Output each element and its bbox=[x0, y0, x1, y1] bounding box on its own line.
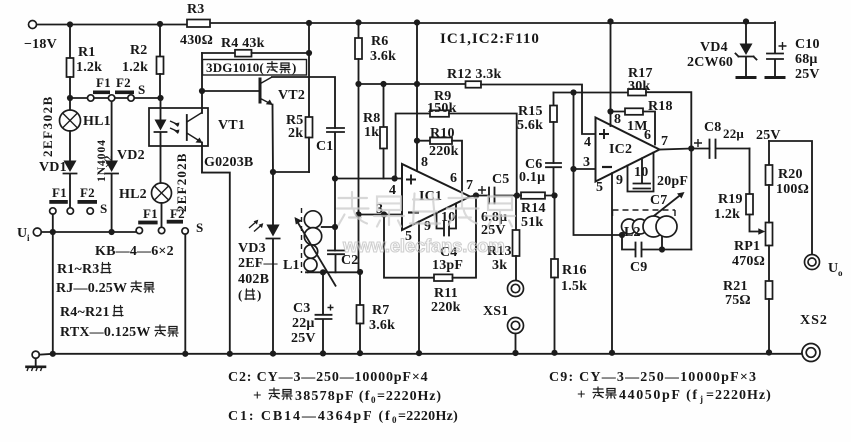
svg-text:6: 6 bbox=[644, 128, 651, 143]
potentiometer RP1 bbox=[766, 223, 773, 246]
resistor R9 feedback bbox=[396, 114, 430, 179]
wire IC2 inverting node line B bbox=[554, 92, 629, 94]
resistor R4 bbox=[202, 52, 235, 54]
svg-text:R4~R21: R4~R21 bbox=[60, 305, 110, 320]
resistor R13 bbox=[515, 196, 517, 231]
svg-text:3.6k: 3.6k bbox=[369, 318, 395, 333]
optocoupler VT1 box bbox=[149, 108, 208, 146]
svg-text:VD4: VD4 bbox=[700, 40, 728, 55]
svg-text:R3: R3 bbox=[187, 2, 205, 17]
wire IC2 output bbox=[660, 149, 710, 150]
svg-text:3.6k: 3.6k bbox=[370, 49, 396, 64]
resistor R21 bbox=[768, 246, 770, 282]
svg-text:F1: F1 bbox=[96, 75, 111, 90]
resistor R8 bbox=[380, 81, 386, 87]
svg-text:+: + bbox=[253, 388, 262, 404]
resistor R7 bbox=[359, 272, 361, 305]
svg-text:RJ—0.25W: RJ—0.25W bbox=[56, 281, 127, 296]
svg-text:U: U bbox=[17, 226, 27, 241]
svg-text:IC2: IC2 bbox=[609, 142, 632, 157]
svg-text:2k: 2k bbox=[288, 126, 303, 141]
wire IC1 pin8 supply column bbox=[416, 23, 418, 172]
svg-text:20pF: 20pF bbox=[657, 174, 688, 189]
svg-text:25V: 25V bbox=[291, 331, 316, 346]
lamp HL2 bbox=[152, 183, 172, 203]
svg-text:KB—4—6×2: KB—4—6×2 bbox=[95, 244, 174, 259]
svg-text:470Ω: 470Ω bbox=[732, 254, 765, 269]
switch contacts F1 F2 S (row3) bbox=[161, 203, 163, 227]
svg-text:1.2k: 1.2k bbox=[122, 60, 148, 75]
wire IC1 pin4 input line bbox=[335, 178, 402, 180]
svg-text:1k: 1k bbox=[364, 125, 379, 140]
svg-text:R7: R7 bbox=[372, 303, 390, 318]
svg-text:220k: 220k bbox=[429, 144, 459, 159]
wire to Uo terminal bbox=[769, 141, 812, 255]
resistor R2 bbox=[159, 24, 161, 57]
svg-text:C8: C8 bbox=[704, 120, 722, 135]
svg-text:22μ: 22μ bbox=[292, 316, 315, 331]
svg-text:IC1: IC1 bbox=[419, 189, 442, 204]
svg-text:R15: R15 bbox=[518, 104, 543, 119]
resistor R17 bbox=[628, 89, 646, 96]
opto LED bbox=[160, 98, 162, 119]
wire row2 left contact to Ui line bbox=[52, 214, 54, 232]
svg-text:G0203B: G0203B bbox=[204, 155, 253, 170]
switch contacts F1 F2 S (row1) bbox=[88, 95, 94, 101]
svg-text:30k: 30k bbox=[628, 79, 650, 94]
capacitor C8 bbox=[694, 139, 702, 147]
svg-text:C2: CY—3—250—10000pF×4: C2: CY—3—250—10000pF×4 bbox=[228, 370, 429, 385]
resistor R10 bbox=[417, 140, 430, 142]
capacitor C3 electrolytic bbox=[316, 272, 332, 353]
wire bias line A bbox=[359, 83, 466, 85]
svg-text:2CW60: 2CW60 bbox=[687, 55, 733, 70]
resistor R16 bbox=[551, 192, 557, 198]
svg-text:3k: 3k bbox=[492, 258, 507, 273]
svg-text:S: S bbox=[138, 82, 145, 97]
jack XS1 bbox=[508, 281, 524, 297]
jack XS2 bbox=[802, 344, 820, 362]
resistor R3 bbox=[187, 20, 210, 28]
svg-text:R14: R14 bbox=[521, 201, 546, 216]
svg-text:C10: C10 bbox=[795, 37, 820, 52]
svg-text:C1: CB14—4364pF (f: C1: CB14—4364pF (f bbox=[228, 409, 392, 424]
node dots on rail bbox=[67, 21, 73, 27]
svg-text:R18: R18 bbox=[648, 99, 673, 114]
wire S row3 down to ground rail bbox=[184, 234, 186, 353]
ground symbol bbox=[32, 351, 39, 358]
svg-text:0: 0 bbox=[392, 415, 397, 425]
svg-text:R2: R2 bbox=[130, 43, 148, 58]
svg-text:2EF202B: 2EF202B bbox=[174, 152, 189, 212]
resistor R6 bbox=[358, 23, 360, 39]
svg-text:3DG1010(: 3DG1010( bbox=[206, 60, 264, 75]
svg-text:8: 8 bbox=[421, 155, 428, 170]
svg-text:44050pF (f: 44050pF (f bbox=[619, 388, 699, 403]
svg-text:HL1: HL1 bbox=[83, 114, 111, 129]
wire R6 column down bbox=[358, 84, 360, 272]
resistor R11 feedback bbox=[384, 215, 434, 278]
svg-text:RTX—0.125W: RTX—0.125W bbox=[60, 325, 151, 340]
svg-text:R19: R19 bbox=[718, 192, 743, 207]
svg-text:1.5k: 1.5k bbox=[561, 279, 587, 294]
svg-text:VD3: VD3 bbox=[238, 241, 266, 256]
ground rail bbox=[39, 353, 802, 355]
svg-text:8: 8 bbox=[614, 112, 621, 127]
svg-text:(: ( bbox=[238, 287, 243, 302]
wire VT2 collector to C1 bbox=[272, 77, 335, 128]
svg-text:4: 4 bbox=[584, 135, 591, 150]
inductor L1 (adjustable) bbox=[304, 211, 321, 228]
svg-text:R20: R20 bbox=[778, 167, 803, 182]
svg-text:7: 7 bbox=[466, 178, 473, 193]
svg-text:): ) bbox=[257, 287, 262, 302]
svg-text:75Ω: 75Ω bbox=[725, 293, 751, 308]
diode VD1 bbox=[69, 131, 71, 160]
wire lower LC node bbox=[306, 271, 360, 273]
svg-text:3: 3 bbox=[583, 155, 590, 170]
svg-text:C9: C9 bbox=[630, 260, 648, 275]
capacitor C9 bbox=[622, 235, 691, 257]
svg-text:R21: R21 bbox=[723, 279, 748, 294]
svg-text:+: + bbox=[577, 387, 586, 403]
svg-text:22μ: 22μ bbox=[723, 126, 744, 141]
terminal Uo bbox=[805, 255, 820, 270]
diode VD2 bbox=[111, 102, 113, 161]
resistor R12 bbox=[466, 81, 482, 88]
svg-text:1.2k: 1.2k bbox=[714, 207, 740, 222]
resistor R15 bbox=[553, 93, 555, 106]
C7 arrow bbox=[634, 195, 682, 233]
svg-text:VT1: VT1 bbox=[218, 118, 245, 133]
svg-text:6: 6 bbox=[450, 171, 457, 186]
svg-text:7: 7 bbox=[661, 134, 668, 149]
wire IC1 pin5 to ground bbox=[418, 222, 420, 354]
svg-text:R12 3.3k: R12 3.3k bbox=[447, 67, 502, 82]
opto phototransistor bbox=[186, 115, 188, 140]
node VT1 collector / VT2 base bbox=[199, 88, 205, 94]
svg-text:=2220Hz): =2220Hz) bbox=[706, 388, 772, 403]
op-amp IC1 bbox=[402, 164, 470, 230]
svg-text:R1~R3: R1~R3 bbox=[57, 262, 100, 277]
svg-text:L2: L2 bbox=[624, 225, 641, 240]
svg-text:HL2: HL2 bbox=[119, 187, 147, 202]
svg-text:C9: CY—3—250—10000pF×3: C9: CY—3—250—10000pF×3 bbox=[549, 370, 757, 385]
svg-text:R10: R10 bbox=[430, 126, 455, 141]
LED VD3 bbox=[272, 172, 274, 224]
terminal Ui bbox=[33, 228, 41, 236]
svg-text:9: 9 bbox=[616, 173, 623, 188]
svg-text:402B: 402B bbox=[238, 272, 269, 287]
svg-text:R4 43k: R4 43k bbox=[221, 36, 265, 51]
svg-text:−18V: −18V bbox=[24, 37, 57, 52]
L1 top tap wire bbox=[322, 226, 335, 228]
svg-text:RP1: RP1 bbox=[734, 239, 760, 254]
transistor VT2 bbox=[259, 79, 262, 102]
dashed screen box bbox=[613, 210, 676, 220]
svg-text:R1: R1 bbox=[78, 45, 96, 60]
svg-text:=2220Hz): =2220Hz) bbox=[398, 409, 458, 424]
node R4/R5 junction to rail bbox=[306, 50, 312, 56]
wire IC2 pin5 to ground bbox=[611, 173, 613, 353]
wire IC1 pin3 input line bbox=[359, 214, 403, 216]
terminal -18V bbox=[29, 21, 37, 29]
svg-text:220k: 220k bbox=[431, 300, 461, 315]
wire pin3 column bbox=[574, 93, 623, 236]
svg-text:F2: F2 bbox=[116, 75, 131, 90]
zener VD4 bbox=[745, 22, 747, 44]
svg-text:C7: C7 bbox=[650, 193, 668, 208]
svg-text:R8: R8 bbox=[363, 111, 381, 126]
resistor R1 bbox=[69, 25, 71, 59]
svg-text:0.1μ: 0.1μ bbox=[519, 170, 545, 185]
capacitor C4 on pins 9,10 bbox=[437, 204, 457, 236]
resistor R14 bbox=[514, 192, 520, 198]
svg-text:C3: C3 bbox=[293, 301, 311, 316]
capacitor C1 bbox=[327, 128, 344, 179]
resistor R19 bbox=[749, 149, 751, 195]
svg-text:L1: L1 bbox=[283, 258, 300, 273]
svg-text:5: 5 bbox=[596, 180, 603, 195]
svg-text:S: S bbox=[196, 220, 203, 235]
svg-text:i: i bbox=[27, 233, 30, 243]
wire switch row 1 bbox=[70, 97, 161, 99]
L1 arrow bbox=[298, 222, 337, 287]
svg-text:j: j bbox=[699, 394, 703, 404]
svg-text:68μ: 68μ bbox=[795, 52, 818, 67]
lamp HL1 bbox=[69, 98, 71, 110]
svg-text:0: 0 bbox=[371, 395, 376, 405]
top supply rail bbox=[36, 23, 775, 25]
svg-text:13pF: 13pF bbox=[432, 258, 463, 273]
label box 3DG1010 bbox=[203, 60, 307, 76]
capacitor C5 output coupling bbox=[470, 196, 489, 197]
svg-text:U: U bbox=[828, 261, 838, 276]
svg-text:2EF302B: 2EF302B bbox=[40, 95, 55, 157]
resistor R5 bbox=[306, 117, 313, 138]
svg-text:5.6k: 5.6k bbox=[517, 118, 543, 133]
svg-text:VD1: VD1 bbox=[39, 160, 67, 175]
op-amp IC2 bbox=[596, 118, 660, 182]
svg-text:S: S bbox=[100, 201, 107, 216]
svg-text:2EF—: 2EF— bbox=[238, 256, 278, 271]
svg-text:R11: R11 bbox=[434, 286, 458, 301]
svg-text:): ) bbox=[292, 60, 297, 75]
wire VT2 emitter column bbox=[273, 105, 310, 173]
svg-text:25V: 25V bbox=[795, 67, 820, 82]
svg-text:38578pF (f: 38578pF (f bbox=[295, 389, 371, 404]
svg-text:F1: F1 bbox=[52, 185, 67, 200]
svg-text:150k: 150k bbox=[427, 101, 457, 116]
wire IC2 pin8 supply column bbox=[610, 22, 612, 127]
capacitor 20pF on pins 9,10 bbox=[628, 153, 654, 192]
svg-text:IC1,IC2:F110: IC1,IC2:F110 bbox=[440, 31, 540, 47]
svg-text:9: 9 bbox=[424, 219, 431, 234]
inductor L2 bbox=[622, 219, 637, 234]
svg-text:R6: R6 bbox=[371, 34, 389, 49]
svg-text:=2220Hz): =2220Hz) bbox=[377, 389, 442, 404]
notes box left wire bbox=[52, 232, 54, 353]
svg-text:51k: 51k bbox=[521, 215, 543, 230]
svg-text:F2: F2 bbox=[80, 185, 95, 200]
wire Ui line bbox=[41, 231, 136, 233]
svg-text:F2: F2 bbox=[170, 206, 185, 221]
svg-text:100Ω: 100Ω bbox=[776, 182, 809, 197]
resistor R18 bbox=[611, 111, 626, 113]
L1 dashed core bbox=[301, 208, 303, 273]
svg-text:F1: F1 bbox=[143, 206, 158, 221]
svg-text:C5: C5 bbox=[492, 172, 510, 187]
svg-text:XS2: XS2 bbox=[800, 313, 828, 328]
svg-text:o: o bbox=[838, 268, 843, 278]
capacitor C2 bbox=[328, 251, 344, 273]
watermark bbox=[337, 192, 515, 256]
resistor R20 bbox=[768, 141, 770, 165]
opto light arrows bbox=[170, 121, 179, 132]
svg-text:430Ω: 430Ω bbox=[180, 33, 213, 48]
svg-text:VT2: VT2 bbox=[278, 88, 305, 103]
svg-text:1.2k: 1.2k bbox=[76, 60, 102, 75]
svg-text:www.elecfans.com: www.elecfans.com bbox=[342, 235, 505, 256]
capacitor C10 bbox=[767, 22, 783, 76]
svg-text:R16: R16 bbox=[562, 263, 587, 278]
svg-text:XS1: XS1 bbox=[483, 304, 509, 319]
svg-text:C1: C1 bbox=[316, 139, 334, 154]
wire VT1 emitter to ground bbox=[202, 173, 230, 353]
svg-text:VD2: VD2 bbox=[117, 148, 145, 163]
capacitor C6 bbox=[546, 163, 561, 196]
